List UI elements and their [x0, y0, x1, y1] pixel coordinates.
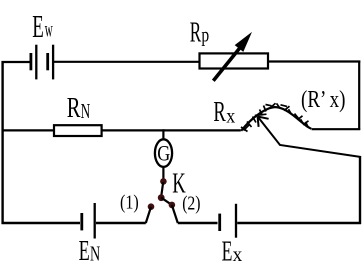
svg-text:R: R	[67, 92, 81, 124]
wire: galvanometer to switch pole	[162, 167, 164, 181]
label EX	[222, 235, 243, 267]
label Ew	[32, 8, 53, 44]
svg-text:w: w	[45, 17, 53, 42]
svg-text:x: x	[233, 242, 243, 266]
wire: middle left, corner to resistor RN	[2, 129, 55, 131]
galvanometer G	[155, 139, 172, 167]
label Rx	[213, 97, 235, 128]
switch K blade tip to contact 2	[161, 198, 172, 205]
rheostat Rp body	[200, 53, 269, 68]
wire: battery EN to switch contact 1	[96, 222, 146, 224]
switch K pole dot	[160, 178, 167, 185]
resistor RN body	[54, 125, 102, 136]
switch K contact 2 dot	[169, 202, 176, 209]
wire: right vertical upper	[358, 61, 360, 131]
label RN	[67, 92, 91, 124]
wire: middle right stub	[312, 128, 361, 130]
svg-text:E: E	[79, 235, 90, 267]
switch K blade	[161, 182, 163, 197]
svg-text:(1): (1)	[120, 192, 139, 214]
wire: bottom left corner to battery EN	[2, 222, 81, 224]
label Rp	[190, 17, 209, 48]
battery EX	[220, 204, 236, 238]
wire: top, rheostat Rp to right corner	[268, 60, 360, 62]
svg-text:N: N	[90, 242, 101, 266]
wire: left vertical	[1, 61, 3, 224]
wire: top, left corner to battery Ew	[2, 61, 31, 63]
wire: switch contact 2 to battery EX	[178, 222, 218, 224]
label EN	[79, 235, 101, 267]
switch K middle dot	[158, 194, 165, 201]
wire: top, battery Ew to rheostat Rp	[54, 61, 200, 63]
wire: right vertical lower	[359, 156, 361, 224]
wire: junction to galvanometer	[162, 129, 164, 140]
slide wire (R'x) hand-drawn arc	[241, 103, 311, 131]
rheostat Rp arrow	[213, 32, 252, 81]
wire: battery EX to bottom right corner	[237, 222, 361, 224]
svg-text:E: E	[222, 235, 233, 267]
svg-text:(2): (2)	[182, 193, 200, 215]
wire: contact 2 leg to bottom wire	[172, 205, 178, 223]
wire: contact 1 leg to bottom wire	[146, 207, 151, 223]
battery EN	[82, 203, 95, 239]
svg-text:(R’ x): (R’ x)	[301, 87, 346, 113]
wire: middle, resistor RN to slide wire	[102, 129, 241, 131]
svg-text:G: G	[157, 142, 170, 166]
svg-text:E: E	[32, 8, 44, 44]
svg-text:N: N	[81, 99, 91, 123]
svg-text:R: R	[190, 17, 202, 48]
wiper arrow for slide wire	[258, 117, 361, 158]
switch K contact 1 dot	[148, 203, 155, 210]
svg-text:x: x	[226, 106, 235, 128]
svg-text:R: R	[213, 97, 225, 128]
battery Ew (two cells)	[31, 45, 53, 80]
svg-text:p: p	[201, 23, 209, 47]
